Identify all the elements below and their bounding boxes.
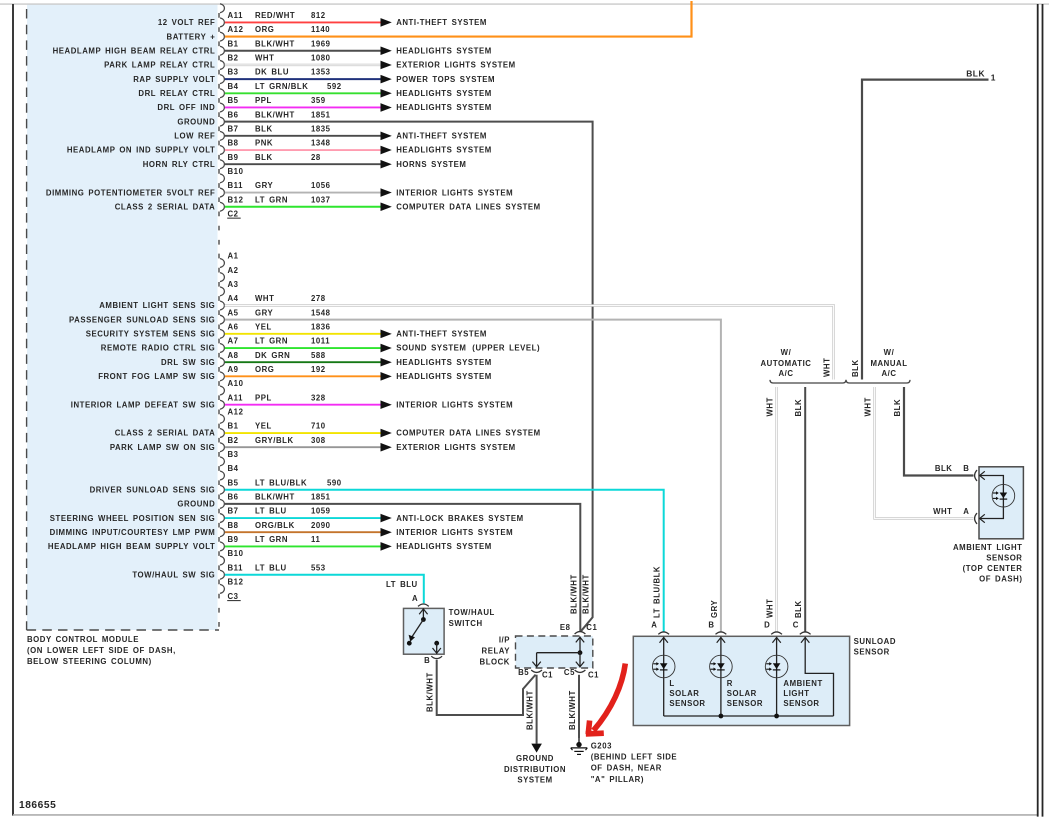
svg-text:A6: A6 [228, 322, 239, 331]
svg-text:PARK LAMP RELAY CTRL: PARK LAMP RELAY CTRL [104, 61, 215, 70]
svg-text:DRIVER SUNLOAD SENS SIG: DRIVER SUNLOAD SENS SIG [90, 485, 216, 494]
svg-text:B5: B5 [518, 668, 529, 677]
svg-text:BLK/WHT: BLK/WHT [569, 574, 578, 614]
svg-text:1056: 1056 [311, 181, 331, 190]
svg-text:359: 359 [311, 96, 326, 105]
svg-text:B6: B6 [228, 492, 239, 501]
svg-text:WHT: WHT [823, 358, 832, 377]
svg-text:B9: B9 [228, 535, 239, 544]
svg-text:SOUND SYSTEM: SOUND SYSTEM [396, 344, 466, 353]
svg-text:A12: A12 [228, 25, 244, 34]
svg-text:GROUND: GROUND [177, 500, 215, 509]
svg-text:ANTI-THEFT SYSTEM: ANTI-THEFT SYSTEM [396, 18, 487, 27]
svg-text:BLK: BLK [966, 68, 985, 78]
svg-text:LT GRN: LT GRN [255, 337, 288, 346]
svg-text:LOW REF: LOW REF [174, 132, 215, 141]
svg-text:INTERIOR LIGHTS SYSTEM: INTERIOR LIGHTS SYSTEM [396, 528, 513, 537]
svg-text:ORG: ORG [255, 365, 274, 374]
svg-text:BLK: BLK [935, 464, 953, 473]
svg-text:C1: C1 [588, 670, 599, 679]
svg-text:BLK: BLK [255, 124, 273, 133]
svg-text:(ON LOWER LEFT SIDE OF DASH,: (ON LOWER LEFT SIDE OF DASH, [27, 646, 176, 655]
svg-text:BLK/WHT: BLK/WHT [568, 690, 577, 730]
svg-text:328: 328 [311, 393, 326, 402]
svg-text:A4: A4 [228, 294, 239, 303]
svg-text:1: 1 [991, 73, 996, 83]
svg-text:A: A [412, 594, 418, 603]
svg-text:BATTERY +: BATTERY + [167, 32, 216, 41]
svg-text:RED/WHT: RED/WHT [255, 11, 295, 20]
svg-text:LT BLU: LT BLU [386, 580, 418, 589]
svg-text:B5: B5 [228, 96, 239, 105]
svg-text:A3: A3 [228, 280, 239, 289]
svg-text:YEL: YEL [255, 322, 272, 331]
svg-text:BLK/WHT: BLK/WHT [426, 672, 435, 712]
svg-text:B11: B11 [228, 181, 244, 190]
svg-text:PASSENGER SUNLOAD SENS SIG: PASSENGER SUNLOAD SENS SIG [69, 315, 215, 324]
svg-text:ANTI-THEFT SYSTEM: ANTI-THEFT SYSTEM [396, 132, 487, 141]
svg-text:COMPUTER DATA LINES SYSTEM: COMPUTER DATA LINES SYSTEM [396, 202, 541, 211]
svg-text:INTERIOR LIGHTS SYSTEM: INTERIOR LIGHTS SYSTEM [396, 400, 513, 409]
svg-text:HEADLIGHTS SYSTEM: HEADLIGHTS SYSTEM [396, 46, 492, 55]
svg-text:A10: A10 [228, 379, 244, 388]
svg-text:HORNS SYSTEM: HORNS SYSTEM [396, 160, 466, 169]
svg-text:710: 710 [311, 422, 326, 431]
svg-text:INTERIOR LAMP DEFEAT SW SIG: INTERIOR LAMP DEFEAT SW SIG [71, 400, 216, 409]
svg-text:B4: B4 [228, 82, 239, 91]
svg-text:REMOTE RADIO CTRL SIG: REMOTE RADIO CTRL SIG [101, 344, 216, 353]
svg-text:PARK LAMP SW ON SIG: PARK LAMP SW ON SIG [110, 443, 215, 452]
svg-text:AUTOMATIC: AUTOMATIC [760, 359, 811, 368]
svg-text:WHT: WHT [766, 397, 775, 416]
svg-text:"A" PILLAR): "A" PILLAR) [591, 775, 644, 784]
svg-text:HEADLIGHTS SYSTEM: HEADLIGHTS SYSTEM [396, 372, 492, 381]
svg-text:I/P: I/P [499, 636, 510, 645]
svg-text:LT GRN: LT GRN [255, 195, 288, 204]
svg-text:DIMMING INPUT/COURTESY LMP PWM: DIMMING INPUT/COURTESY LMP PWM [50, 528, 216, 537]
svg-text:1835: 1835 [311, 124, 331, 133]
svg-text:A11: A11 [228, 393, 244, 402]
svg-text:OF DASH, NEAR: OF DASH, NEAR [591, 764, 662, 773]
svg-text:SENSOR: SENSOR [986, 553, 1022, 562]
svg-text:W/: W/ [781, 348, 792, 357]
svg-text:YEL: YEL [255, 422, 272, 431]
svg-text:AMBIENT LIGHT SENS SIG: AMBIENT LIGHT SENS SIG [99, 301, 215, 310]
svg-text:A7: A7 [228, 337, 239, 346]
svg-text:A/C: A/C [881, 369, 896, 378]
svg-text:1037: 1037 [311, 195, 331, 204]
svg-text:C5: C5 [564, 668, 575, 677]
svg-text:HEADLIGHTS SYSTEM: HEADLIGHTS SYSTEM [396, 89, 492, 98]
svg-text:DRL OFF IND: DRL OFF IND [157, 103, 215, 112]
svg-text:ORG: ORG [255, 25, 274, 34]
svg-text:C1: C1 [586, 623, 597, 632]
svg-text:BLK/WHT: BLK/WHT [582, 574, 591, 614]
svg-text:G203: G203 [591, 741, 612, 750]
svg-text:L: L [669, 679, 674, 688]
svg-text:SECURITY SYSTEM SENS SIG: SECURITY SYSTEM SENS SIG [86, 330, 216, 339]
svg-text:2090: 2090 [311, 521, 331, 530]
svg-text:LT BLU: LT BLU [255, 507, 287, 516]
svg-text:SENSOR: SENSOR [669, 699, 705, 708]
svg-text:1140: 1140 [311, 25, 330, 34]
svg-text:A1: A1 [228, 252, 239, 261]
svg-text:BLK: BLK [255, 153, 273, 162]
svg-text:(UPPER LEVEL): (UPPER LEVEL) [472, 344, 540, 353]
svg-text:GRY: GRY [710, 599, 719, 618]
svg-text:CLASS 2 SERIAL DATA: CLASS 2 SERIAL DATA [115, 429, 216, 438]
svg-text:192: 192 [311, 365, 326, 374]
svg-text:AMBIENT LIGHT: AMBIENT LIGHT [953, 543, 1023, 552]
svg-text:BLK: BLK [794, 600, 803, 618]
svg-text:B2: B2 [228, 54, 239, 63]
svg-text:B6: B6 [228, 110, 239, 119]
svg-text:B: B [424, 656, 430, 665]
svg-text:R: R [727, 679, 733, 688]
svg-text:PPL: PPL [255, 393, 272, 402]
svg-text:LT GRN/BLK: LT GRN/BLK [255, 82, 308, 91]
svg-text:B7: B7 [228, 507, 239, 516]
svg-text:AMBIENT: AMBIENT [783, 679, 822, 688]
svg-text:HEADLAMP HIGH BEAM RELAY CTRL: HEADLAMP HIGH BEAM RELAY CTRL [53, 46, 216, 55]
svg-text:A11: A11 [228, 11, 244, 20]
svg-text:STEERING WHEEL POSITION SEN SI: STEERING WHEEL POSITION SEN SIG [50, 514, 216, 523]
svg-text:(TOP CENTER: (TOP CENTER [963, 564, 1023, 573]
svg-text:BLK: BLK [851, 359, 860, 377]
svg-text:EXTERIOR LIGHTS SYSTEM: EXTERIOR LIGHTS SYSTEM [396, 443, 516, 452]
svg-text:A12: A12 [228, 407, 244, 416]
svg-text:BODY CONTROL MODULE: BODY CONTROL MODULE [27, 635, 139, 644]
svg-text:B3: B3 [228, 68, 239, 77]
svg-text:HEADLAMP HIGH BEAM SUPPLY VOLT: HEADLAMP HIGH BEAM SUPPLY VOLT [48, 542, 215, 551]
svg-text:SENSOR: SENSOR [783, 699, 819, 708]
svg-text:HEADLIGHTS SYSTEM: HEADLIGHTS SYSTEM [396, 358, 492, 367]
svg-text:590: 590 [327, 478, 342, 487]
svg-text:SWITCH: SWITCH [449, 619, 483, 628]
svg-text:HEADLIGHTS SYSTEM: HEADLIGHTS SYSTEM [396, 103, 492, 112]
svg-text:CLASS 2 SERIAL DATA: CLASS 2 SERIAL DATA [115, 202, 216, 211]
svg-text:GRY: GRY [255, 181, 274, 190]
svg-text:(BEHIND LEFT SIDE: (BEHIND LEFT SIDE [591, 753, 677, 762]
svg-text:LT BLU/BLK: LT BLU/BLK [255, 478, 307, 487]
svg-text:DIMMING POTENTIOMETER 5VOLT RE: DIMMING POTENTIOMETER 5VOLT REF [46, 188, 215, 197]
svg-text:DK BLU: DK BLU [255, 68, 289, 77]
svg-text:B10: B10 [228, 549, 244, 558]
svg-text:A/C: A/C [778, 369, 793, 378]
svg-text:B10: B10 [228, 167, 244, 176]
svg-text:GROUND: GROUND [516, 754, 554, 763]
svg-text:SUNLOAD: SUNLOAD [854, 637, 896, 646]
svg-text:592: 592 [327, 82, 342, 91]
svg-text:BLK/WHT: BLK/WHT [255, 110, 295, 119]
svg-text:HEADLIGHTS SYSTEM: HEADLIGHTS SYSTEM [396, 542, 492, 551]
svg-text:A5: A5 [228, 308, 239, 317]
svg-text:TOW/HAUL: TOW/HAUL [449, 608, 495, 617]
svg-text:C1: C1 [542, 670, 553, 679]
svg-text:588: 588 [311, 351, 326, 360]
svg-text:ANTI-THEFT SYSTEM: ANTI-THEFT SYSTEM [396, 330, 487, 339]
svg-text:PPL: PPL [255, 96, 272, 105]
svg-text:B: B [963, 464, 969, 473]
svg-text:308: 308 [311, 436, 326, 445]
svg-text:BLK/WHT: BLK/WHT [255, 492, 295, 501]
svg-text:1548: 1548 [311, 308, 331, 317]
svg-text:EXTERIOR LIGHTS SYSTEM: EXTERIOR LIGHTS SYSTEM [396, 61, 516, 70]
svg-text:B3: B3 [228, 450, 239, 459]
svg-text:C: C [793, 620, 799, 629]
svg-text:ORG/BLK: ORG/BLK [255, 521, 295, 530]
svg-text:RELAY: RELAY [482, 647, 511, 656]
svg-text:B1: B1 [228, 422, 239, 431]
svg-text:B8: B8 [228, 139, 239, 148]
svg-text:B12: B12 [228, 578, 244, 587]
svg-text:LIGHT: LIGHT [783, 689, 809, 698]
svg-text:INTERIOR LIGHTS SYSTEM: INTERIOR LIGHTS SYSTEM [396, 188, 513, 197]
svg-text:LT GRN: LT GRN [255, 535, 288, 544]
svg-text:1080: 1080 [311, 54, 331, 63]
svg-text:WHT: WHT [933, 507, 952, 516]
svg-text:SENSOR: SENSOR [854, 648, 890, 657]
svg-text:A: A [651, 620, 657, 629]
svg-text:1851: 1851 [311, 110, 331, 119]
svg-text:B4: B4 [228, 464, 239, 473]
svg-text:ANTI-LOCK BRAKES SYSTEM: ANTI-LOCK BRAKES SYSTEM [396, 514, 523, 523]
svg-text:C3: C3 [228, 592, 239, 601]
svg-text:B8: B8 [228, 521, 239, 530]
svg-text:DRL RELAY CTRL: DRL RELAY CTRL [138, 89, 215, 98]
svg-text:WHT: WHT [255, 54, 274, 63]
svg-text:WHT: WHT [864, 397, 873, 416]
svg-text:SOLAR: SOLAR [669, 689, 699, 698]
svg-text:FRONT FOG LAMP SW SIG: FRONT FOG LAMP SW SIG [98, 372, 215, 381]
svg-text:HORN RLY CTRL: HORN RLY CTRL [143, 160, 216, 169]
svg-text:11: 11 [311, 535, 320, 544]
svg-text:1851: 1851 [311, 492, 331, 501]
svg-text:DISTRIBUTION: DISTRIBUTION [504, 765, 566, 774]
svg-text:B: B [708, 620, 714, 629]
svg-text:B1: B1 [228, 39, 239, 48]
svg-text:RAP SUPPLY VOLT: RAP SUPPLY VOLT [133, 75, 215, 84]
svg-text:POWER TOPS SYSTEM: POWER TOPS SYSTEM [396, 75, 495, 84]
svg-text:D: D [764, 620, 770, 629]
svg-text:DRL SW SIG: DRL SW SIG [161, 358, 215, 367]
svg-text:1348: 1348 [311, 139, 331, 148]
svg-text:A: A [963, 507, 969, 516]
svg-text:12 VOLT REF: 12 VOLT REF [158, 18, 215, 27]
svg-text:BLK/WHT: BLK/WHT [526, 690, 535, 730]
svg-text:SOLAR: SOLAR [727, 689, 757, 698]
svg-text:B2: B2 [228, 436, 239, 445]
svg-text:1353: 1353 [311, 68, 331, 77]
svg-text:GRY: GRY [255, 308, 274, 317]
svg-text:1059: 1059 [311, 507, 331, 516]
svg-text:1836: 1836 [311, 322, 331, 331]
svg-text:LT BLU: LT BLU [255, 563, 287, 572]
svg-text:SYSTEM: SYSTEM [517, 776, 552, 785]
svg-text:1969: 1969 [311, 39, 331, 48]
svg-text:B5: B5 [228, 478, 239, 487]
svg-text:553: 553 [311, 563, 326, 572]
svg-text:186655: 186655 [19, 800, 56, 811]
svg-text:A9: A9 [228, 365, 239, 374]
svg-text:278: 278 [311, 294, 326, 303]
svg-text:A8: A8 [228, 351, 239, 360]
svg-text:TOW/HAUL SW SIG: TOW/HAUL SW SIG [132, 570, 215, 579]
svg-text:HEADLAMP ON IND SUPPLY VOLT: HEADLAMP ON IND SUPPLY VOLT [67, 146, 215, 155]
svg-text:E8: E8 [560, 623, 571, 632]
svg-text:B7: B7 [228, 124, 239, 133]
svg-text:1011: 1011 [311, 337, 330, 346]
svg-text:B9: B9 [228, 153, 239, 162]
svg-text:BLK/WHT: BLK/WHT [255, 39, 295, 48]
svg-text:GROUND: GROUND [177, 117, 215, 126]
svg-text:BELOW STEERING COLUMN): BELOW STEERING COLUMN) [27, 657, 152, 666]
svg-text:PNK: PNK [255, 139, 273, 148]
svg-text:OF DASH): OF DASH) [979, 574, 1022, 583]
svg-text:LT BLU/BLK: LT BLU/BLK [653, 566, 662, 618]
svg-text:WHT: WHT [766, 599, 775, 618]
svg-text:812: 812 [311, 11, 326, 20]
svg-text:MANUAL: MANUAL [870, 359, 907, 368]
svg-text:28: 28 [311, 153, 321, 162]
svg-text:C2: C2 [228, 209, 239, 218]
svg-text:GRY/BLK: GRY/BLK [255, 436, 294, 445]
svg-text:BLK: BLK [893, 399, 902, 417]
svg-text:SENSOR: SENSOR [727, 699, 763, 708]
svg-text:W/: W/ [884, 348, 895, 357]
svg-text:B11: B11 [228, 563, 244, 572]
svg-text:BLOCK: BLOCK [480, 658, 510, 667]
svg-text:HEADLIGHTS SYSTEM: HEADLIGHTS SYSTEM [396, 146, 492, 155]
svg-text:A2: A2 [228, 266, 239, 275]
svg-text:B12: B12 [228, 195, 244, 204]
svg-text:COMPUTER DATA LINES SYSTEM: COMPUTER DATA LINES SYSTEM [396, 429, 541, 438]
svg-text:WHT: WHT [255, 294, 274, 303]
svg-text:BLK: BLK [794, 399, 803, 417]
svg-text:DK GRN: DK GRN [255, 351, 290, 360]
